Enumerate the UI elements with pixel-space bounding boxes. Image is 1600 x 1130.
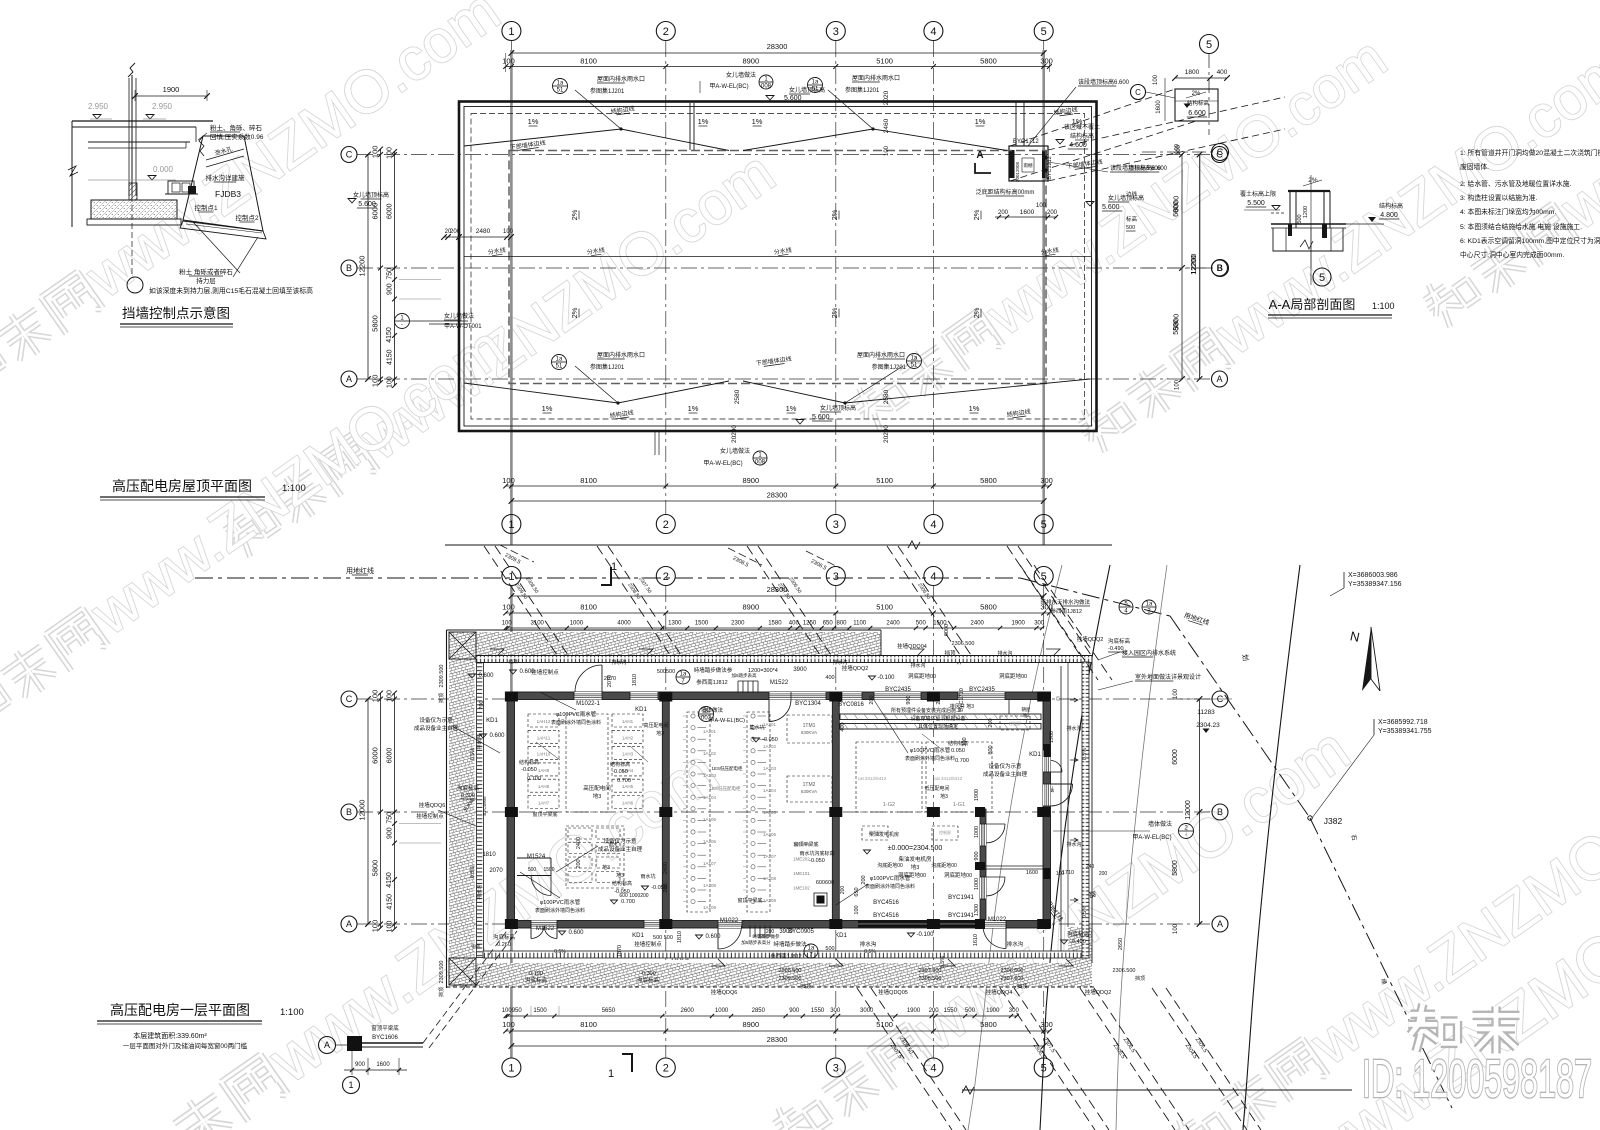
svg-text:该区域不覆土: 该区域不覆土 [1064, 123, 1100, 131]
svg-text:500500: 500500 [657, 669, 675, 675]
svg-text:沟底标高: 沟底标高 [637, 976, 660, 984]
retaining wall detail: gutter assembly [168, 181, 194, 194]
svg-text:100: 100 [884, 145, 890, 156]
svg-text:1300: 1300 [974, 904, 980, 916]
svg-text:A: A [1216, 374, 1222, 384]
svg-text:200: 200 [988, 718, 994, 727]
svg-text:排水沟: 排水沟 [1066, 841, 1081, 848]
svg-text:6000: 6000 [387, 748, 394, 764]
floor plan: BYC1606 leader diagonals [423, 928, 509, 1043]
svg-text:1-G2: 1-G2 [883, 802, 895, 808]
svg-text:高压配电房一层平面图: 高压配电房一层平面图 [110, 1002, 250, 1018]
svg-text:成品设备业主自理: 成品设备业主自理 [414, 724, 459, 732]
svg-text:650: 650 [823, 621, 834, 627]
svg-text:200: 200 [663, 883, 669, 892]
floor plan: bottom ground long line [962, 1089, 1352, 1091]
svg-text:5.600: 5.600 [784, 95, 802, 102]
svg-text:5800: 5800 [980, 1020, 997, 1029]
floor plan: drain channel right [1082, 662, 1089, 958]
svg-text:900: 900 [355, 1062, 366, 1068]
AA detail: right grid C line [1142, 151, 1213, 153]
svg-text:0.190: 0.190 [529, 971, 543, 977]
svg-text:1%: 1% [542, 404, 553, 413]
roof plan: contour stubs below [500, 545, 534, 562]
floor plan: door arcs [601, 665, 603, 692]
svg-text:排水沟详建施: 排水沟详建施 [206, 173, 246, 182]
svg-text:3900: 3900 [779, 929, 793, 935]
roof plan: rain inlet annotation top-mid [808, 78, 823, 93]
svg-text:加5踏步表高分: 加5踏步表高分 [741, 939, 771, 946]
AA detail: B bubble right [1142, 267, 1213, 269]
svg-text:200: 200 [1099, 871, 1108, 877]
svg-text:100: 100 [371, 375, 380, 388]
svg-text:100: 100 [371, 146, 380, 159]
svg-text:A-A局部剖面图: A-A局部剖面图 [1269, 297, 1356, 312]
svg-text:6000: 6000 [944, 624, 950, 636]
svg-text:表面刷涂外墙同色涂料: 表面刷涂外墙同色涂料 [535, 907, 585, 914]
svg-text:挡顶: 挡顶 [1017, 983, 1027, 990]
floor plan: stair steps bottom entrance [749, 926, 751, 938]
svg-text:排水沟: 排水沟 [611, 659, 626, 666]
svg-text:-0.050: -0.050 [809, 858, 825, 864]
svg-text:500: 500 [1297, 214, 1303, 223]
svg-text:5: 本图须结合结施给水施 电施 设施施工.: 5: 本图须结合结施给水施 电施 设施施工. [1460, 222, 1582, 231]
svg-text:1000: 1000 [715, 1008, 729, 1014]
svg-text:屋面内排水雨水口: 屋面内排水雨水口 [597, 351, 645, 359]
svg-text:600600: 600600 [816, 880, 834, 886]
svg-text:BYC0905: BYC0905 [482, 796, 487, 816]
svg-text:FJDB3: FJDB3 [215, 189, 241, 199]
svg-text:C: C [1217, 147, 1224, 157]
retaining wall detail: trapezoid retaining wall [183, 136, 263, 231]
floor plan: generator boxes right room [856, 742, 922, 812]
svg-text:KD1: KD1 [635, 707, 647, 713]
svg-text:参图集1J201: 参图集1J201 [845, 86, 880, 94]
svg-text:B: B [1217, 807, 1223, 817]
svg-text:本层建筑面积:339.60m²: 本层建筑面积:339.60m² [133, 1031, 207, 1040]
svg-text:-0.100: -0.100 [916, 932, 934, 938]
svg-text:沟底标高: 沟底标高 [1108, 637, 1131, 645]
svg-text:甲A-W-EL(BC): 甲A-W-EL(BC) [703, 460, 742, 467]
svg-text:屋面内排水雨水口: 屋面内排水雨水口 [597, 75, 645, 83]
svg-text:0.600: 0.600 [705, 934, 721, 940]
svg-text:控制屏: 控制屏 [1009, 720, 1021, 726]
roof plan: left dim chain mid [380, 149, 382, 383]
svg-text:窗顶平梁底: 窗顶平梁底 [737, 897, 762, 904]
svg-text:2600: 2600 [681, 1008, 695, 1014]
svg-text:1100: 1100 [853, 621, 867, 627]
svg-text:M1022-1: M1022-1 [576, 701, 600, 707]
watermark tile [1424, 286, 1444, 300]
svg-text:1AH3: 1AH3 [622, 752, 634, 757]
svg-text:cat 3412/6412: cat 3412/6412 [934, 776, 963, 781]
svg-text:排水沟: 排水沟 [476, 884, 483, 899]
svg-text:8100: 8100 [580, 603, 597, 612]
svg-text:参图集1J201: 参图集1J201 [590, 363, 625, 371]
svg-text:0.5%: 0.5% [470, 748, 476, 761]
svg-text:1000: 1000 [974, 826, 980, 838]
svg-text:1900: 1900 [1012, 621, 1026, 627]
svg-text:2580: 2580 [734, 389, 741, 404]
svg-text:100: 100 [387, 376, 394, 388]
svg-text:400: 400 [840, 722, 846, 731]
svg-text:3: 3 [833, 1063, 839, 1075]
svg-text:1900: 1900 [986, 1008, 1000, 1014]
floor plan: FM room doors on partition x980 [980, 824, 986, 846]
svg-text:成品设备业主自理: 成品设备业主自理 [598, 845, 643, 853]
svg-text:0.260: 0.260 [497, 942, 511, 948]
svg-text:2300: 2300 [731, 621, 745, 627]
svg-text:挂墙QDQ2: 挂墙QDQ2 [1085, 988, 1112, 996]
svg-text:630KVA: 630KVA [801, 789, 817, 794]
floor plan: grid horizontals [357, 698, 1211, 700]
svg-text:200: 200 [998, 210, 1009, 216]
floor plan: top contour dashed diagonals [484, 546, 559, 658]
svg-text:100: 100 [502, 1020, 515, 1029]
svg-text:5: 5 [1206, 39, 1212, 51]
svg-text:1550: 1550 [944, 1008, 958, 1014]
svg-text:100: 100 [371, 690, 380, 703]
svg-text:洞底距地00: 洞底距地00 [908, 672, 936, 680]
svg-text:1a: 1a [556, 357, 563, 363]
svg-text:X=3686003.986: X=3686003.986 [1348, 572, 1398, 579]
svg-text:500: 500 [1126, 225, 1135, 231]
floor plan: bottom grid bubbles [502, 1058, 521, 1077]
svg-text:φ100PVC雨水管: φ100PVC雨水管 [870, 874, 911, 882]
svg-text:400: 400 [1217, 69, 1228, 76]
svg-text:100: 100 [502, 57, 515, 66]
svg-text:5800: 5800 [1172, 860, 1179, 876]
svg-text:沟底: 沟底 [472, 943, 481, 950]
floor plan: J382 point [1308, 816, 1312, 820]
svg-text:2307.500: 2307.500 [919, 968, 942, 974]
svg-text:接入园区内排水系统: 接入园区内排水系统 [1122, 649, 1176, 657]
svg-text:2309.500: 2309.500 [779, 976, 802, 982]
svg-text:4000: 4000 [617, 621, 631, 627]
svg-text:一层平面图对外门及储油间每宽窗00两门槛: 一层平面图对外门及储油间每宽窗00两门槛 [123, 1041, 248, 1050]
svg-text:挂墙控制点: 挂墙控制点 [416, 812, 444, 820]
svg-text:1a: 1a [808, 946, 815, 952]
svg-text:0.000: 0.000 [153, 165, 174, 174]
svg-text:200: 200 [450, 229, 461, 235]
svg-text:1AH7: 1AH7 [538, 801, 550, 806]
svg-text:沟底距地00: 沟底距地00 [931, 862, 957, 869]
floor plan: walkway arrows right [1070, 699, 1078, 701]
svg-text:6: KD1表示空调留洞100mm,图中定位尺寸为洞: 6: KD1表示空调留洞100mm,图中定位尺寸为洞 [1460, 236, 1600, 245]
svg-text:该段墙顶标高6.600: 该段墙顶标高6.600 [1078, 78, 1130, 86]
svg-text:1500: 1500 [533, 1008, 547, 1014]
svg-text:1710: 1710 [1062, 870, 1074, 876]
svg-text:-0.050: -0.050 [612, 769, 628, 775]
svg-text:240: 240 [1086, 864, 1095, 870]
svg-text:3: 构造柱设置以结施为准.: 3: 构造柱设置以结施为准. [1460, 193, 1538, 202]
svg-text:A: A [976, 150, 983, 161]
svg-text:900: 900 [789, 1008, 800, 1014]
svg-text:5: 5 [1319, 272, 1325, 284]
svg-text:5800: 5800 [980, 476, 997, 485]
svg-text:4: 4 [930, 519, 936, 531]
svg-text:窗顶平梁底: 窗顶平梁底 [532, 811, 557, 818]
svg-text:2: 2 [663, 519, 669, 531]
svg-text:Y=35389341.755: Y=35389341.755 [1378, 728, 1432, 735]
svg-text:屋面内排水雨水口: 屋面内排水雨水口 [852, 74, 900, 82]
floor plan: top-right duct walls [840, 714, 1041, 720]
roof plan: lower-wall thick gray verticals [510, 50, 513, 545]
svg-text:20200: 20200 [731, 425, 738, 443]
svg-text:结构标高: 结构标高 [948, 740, 968, 747]
svg-text:女儿墙顶标高: 女儿墙顶标高 [820, 404, 856, 412]
svg-text:1%: 1% [752, 117, 763, 126]
svg-text:1A203: 1A203 [763, 766, 777, 771]
svg-text:挂墙QDQ05: 挂墙QDQ05 [878, 988, 908, 996]
svg-text:2580: 2580 [883, 389, 890, 404]
roof plan: grid bubbles right [1212, 147, 1228, 163]
svg-text:4: 4 [930, 1063, 936, 1075]
svg-text:2307.600: 2307.600 [1001, 976, 1024, 982]
svg-text:900: 900 [387, 827, 394, 839]
svg-text:2304.23: 2304.23 [1196, 722, 1220, 729]
svg-text:cat 3412/6412: cat 3412/6412 [858, 776, 887, 781]
svg-text:2400: 2400 [576, 837, 582, 849]
svg-text:6.600: 6.600 [1188, 110, 1206, 117]
svg-text:洞底距地00: 洞底距地00 [999, 672, 1027, 680]
svg-text:750: 750 [387, 268, 394, 280]
svg-text:边线: 边线 [1126, 190, 1138, 198]
svg-text:2%: 2% [830, 307, 839, 318]
svg-text:1AH9: 1AH9 [538, 768, 550, 773]
svg-text:0.5%: 0.5% [470, 866, 476, 879]
svg-text:4: 本图未标注门垛宽均为00mm.: 4: 本图未标注门垛宽均为00mm. [1460, 207, 1556, 216]
svg-text:1300: 1300 [668, 621, 682, 627]
floor plan: bottom dim chain main [506, 1030, 1050, 1032]
svg-text:BYC1606: BYC1606 [372, 1035, 398, 1041]
roof plan: bottom dim chain [506, 485, 1050, 487]
svg-text:1580: 1580 [768, 621, 782, 627]
svg-text:2%: 2% [972, 209, 981, 220]
AA section: parapet [1288, 190, 1330, 192]
svg-text:女儿墙做法: 女儿墙做法 [720, 447, 750, 455]
svg-text:200: 200 [840, 886, 846, 895]
svg-text:1900: 1900 [907, 1008, 921, 1014]
svg-text:M1022: M1022 [720, 918, 739, 924]
svg-text:雨水坑沟底标高: 雨水坑沟底标高 [799, 850, 834, 857]
svg-text:1AH11: 1AH11 [537, 735, 551, 740]
svg-text:1A209: 1A209 [763, 898, 777, 903]
svg-text:排水沟: 排水沟 [1007, 940, 1024, 948]
svg-text:8100: 8100 [580, 476, 597, 485]
svg-text:100: 100 [1173, 688, 1179, 699]
watermark tile [224, 516, 244, 530]
svg-text:2070: 2070 [489, 868, 503, 874]
svg-text:1AH10: 1AH10 [537, 752, 551, 757]
svg-text:1000: 1000 [570, 621, 584, 627]
svg-text:5800: 5800 [1173, 319, 1180, 335]
watermark tile [1174, 1121, 1194, 1130]
svg-text:1600: 1600 [1026, 870, 1038, 876]
floor plan: interior partition grid3 [832, 699, 839, 921]
svg-text:1AH1: 1AH1 [622, 719, 634, 724]
svg-text:4150: 4150 [387, 349, 394, 365]
svg-text:设备仅为示意: 设备仅为示意 [988, 762, 1022, 770]
svg-text:KD1: KD1 [835, 933, 847, 939]
floor plan: hatch ring right corner piece [1068, 927, 1092, 963]
floor plan: bottom contour dashed diagonals [857, 988, 952, 1130]
svg-text:甲A-W-EL(BC): 甲A-W-EL(BC) [709, 717, 745, 724]
svg-text:8900: 8900 [742, 1020, 759, 1029]
svg-text:3: 3 [833, 571, 839, 583]
svg-text:0.5%: 0.5% [864, 949, 876, 955]
roof plan: rain inlet annotation bottom-right [907, 354, 922, 369]
svg-text:-: - [401, 323, 403, 329]
floor plan: wall window openings [574, 692, 602, 700]
svg-text:1A208: 1A208 [763, 876, 777, 881]
floor plan: top dim total 28300 [511, 595, 1043, 597]
svg-text:地3: 地3 [602, 864, 610, 871]
svg-text:1600: 1600 [1156, 100, 1162, 114]
svg-text:1AH5: 1AH5 [622, 784, 634, 789]
svg-text:0.700: 0.700 [955, 758, 969, 764]
floor plan: drain channel top [476, 656, 1092, 663]
svg-text:200: 200 [936, 695, 942, 704]
svg-text:1000: 1000 [974, 878, 980, 890]
AA detail: canopy C bubble [1131, 85, 1146, 100]
svg-text:100: 100 [502, 603, 515, 612]
svg-text:0.600: 0.600 [519, 669, 535, 675]
svg-text:控制点1: 控制点1 [194, 203, 218, 212]
svg-text:100: 100 [502, 476, 515, 485]
svg-text:表面刷涂外墙同色涂料: 表面刷涂外墙同色涂料 [865, 883, 915, 890]
floor plan: right dim chain [1199, 699, 1201, 924]
svg-text:1A206: 1A206 [763, 832, 777, 837]
svg-text:1%: 1% [975, 117, 986, 126]
svg-text:雨棚: 雨棚 [1024, 162, 1033, 169]
svg-text:100: 100 [503, 229, 514, 235]
svg-text:4: 4 [930, 571, 936, 583]
svg-text:1610: 1610 [973, 934, 979, 946]
svg-text:2650: 2650 [1118, 938, 1124, 950]
svg-text:中心尺寸,洞中心室内完成面00mm.: 中心尺寸,洞中心室内完成面00mm. [1460, 250, 1564, 259]
svg-text:地3: 地3 [616, 872, 624, 879]
svg-text:1AH8: 1AH8 [538, 784, 550, 789]
svg-text:地3: 地3 [593, 792, 602, 800]
svg-text:750: 750 [387, 812, 394, 824]
svg-text:C: C [346, 150, 353, 160]
svg-text:5.500: 5.500 [1247, 200, 1265, 207]
svg-text:用地红线: 用地红线 [346, 566, 374, 575]
svg-text:300: 300 [1040, 476, 1053, 485]
svg-text:地3: 地3 [656, 730, 664, 737]
svg-text:300: 300 [1040, 1020, 1053, 1029]
roof plan: top drainage zigzag [464, 129, 729, 151]
svg-text:挡墙控制点示意图: 挡墙控制点示意图 [122, 305, 230, 321]
svg-text:排水沟: 排水沟 [1066, 725, 1081, 732]
floor plan: road contour curves [968, 565, 1062, 1130]
svg-text:5800: 5800 [371, 860, 380, 877]
floor plan: BYC1606 detail bottom left [319, 1037, 336, 1054]
svg-text:1 11 11 11: 1 11 11 11 [671, 956, 690, 961]
svg-text:3: 3 [833, 519, 839, 531]
svg-text:1A202: 1A202 [763, 744, 777, 749]
svg-text:地3: 地3 [911, 863, 920, 871]
svg-text:6000: 6000 [1173, 201, 1180, 217]
svg-text:2306.500: 2306.500 [1113, 968, 1136, 974]
svg-text:2306.500: 2306.500 [952, 641, 975, 647]
svg-text:1A105: 1A105 [703, 817, 717, 822]
svg-text:窗顶平梁底: 窗顶平梁底 [371, 1024, 399, 1032]
svg-text:003: 003 [701, 716, 712, 722]
svg-text:参西南1J812: 参西南1J812 [770, 952, 802, 960]
svg-text:泛底距结构标高00mm: 泛底距结构标高00mm [976, 188, 1035, 196]
svg-text:5100: 5100 [876, 603, 893, 612]
svg-text:废固墙体.: 废固墙体. [1460, 162, 1489, 171]
floor plan: small leaders [536, 742, 560, 760]
retaining wall detail: dim 1900 [135, 95, 207, 97]
retaining wall detail: top slab [72, 120, 213, 122]
svg-text:女儿墙做法: 女儿墙做法 [444, 312, 474, 320]
svg-text:4: 4 [930, 26, 936, 38]
roof plan: mid ridge line [464, 256, 1091, 258]
svg-text:6000: 6000 [371, 203, 380, 220]
floor plan: building walls [507, 692, 1051, 700]
svg-text:12200: 12200 [358, 256, 367, 277]
watermark tile [774, 1109, 795, 1124]
svg-text:0.700: 0.700 [621, 899, 635, 905]
svg-text:1A201: 1A201 [763, 722, 777, 727]
svg-text:2460: 2460 [883, 118, 890, 133]
svg-text:BYC1304: BYC1304 [795, 701, 821, 707]
roof plan: right dim chains [1181, 155, 1183, 380]
svg-text:参西南1J812: 参西南1J812 [696, 678, 728, 686]
roof plan: rain inlet annotation top-left [553, 79, 568, 94]
svg-text:0.600: 0.600 [478, 673, 494, 679]
svg-text:1AH2: 1AH2 [622, 735, 634, 740]
floor plan: drain channel bottom [483, 951, 1083, 958]
znzmo logo bottom right [1411, 1010, 1436, 1020]
roof plan: left dim chain outer [367, 155, 369, 380]
roof plan: outline inner [464, 107, 1092, 427]
svg-text:挂墙QDQ6: 挂墙QDQ6 [419, 801, 446, 809]
svg-text:1%: 1% [528, 117, 539, 126]
svg-text:B: B [346, 807, 352, 817]
svg-text:650: 650 [854, 887, 860, 896]
svg-text:排水沟: 排水沟 [997, 650, 1012, 657]
roof plan: top dim chain [506, 66, 1050, 68]
svg-text:6000: 6000 [1172, 749, 1179, 765]
retaining wall detail: foundation hatched block [91, 200, 177, 219]
svg-text:300: 300 [830, 1008, 841, 1014]
svg-text:BYC1941: BYC1941 [948, 895, 974, 901]
svg-text:1a: 1a [911, 356, 918, 362]
svg-text:1%: 1% [786, 404, 797, 413]
svg-text:雨水坑: 雨水坑 [640, 873, 655, 880]
svg-text:控制屏: 控制屏 [939, 829, 951, 835]
svg-text:集水坑: 集水坑 [749, 724, 764, 731]
svg-text:100: 100 [1175, 379, 1181, 390]
svg-text:500: 500 [825, 946, 834, 952]
svg-text:Y=35389347.156: Y=35389347.156 [1348, 581, 1402, 588]
roof plan: expansion joint top centre [689, 103, 691, 150]
svg-text:沟底标高: 沟底标高 [525, 976, 548, 984]
floor plan: bottom dim chain detailed [506, 1015, 1017, 1017]
svg-text:沟底标高: 沟底标高 [457, 784, 480, 792]
svg-text:1870: 1870 [617, 945, 623, 957]
svg-text:2309.500: 2309.500 [439, 961, 445, 984]
svg-text:挂墙QDQ4: 挂墙QDQ4 [986, 988, 1013, 996]
svg-text:1500: 1500 [543, 867, 554, 873]
svg-text:结构标高: 结构标高 [1070, 132, 1094, 140]
svg-text:BYC1712: BYC1712 [1013, 139, 1039, 145]
svg-text:3000: 3000 [860, 1008, 874, 1014]
